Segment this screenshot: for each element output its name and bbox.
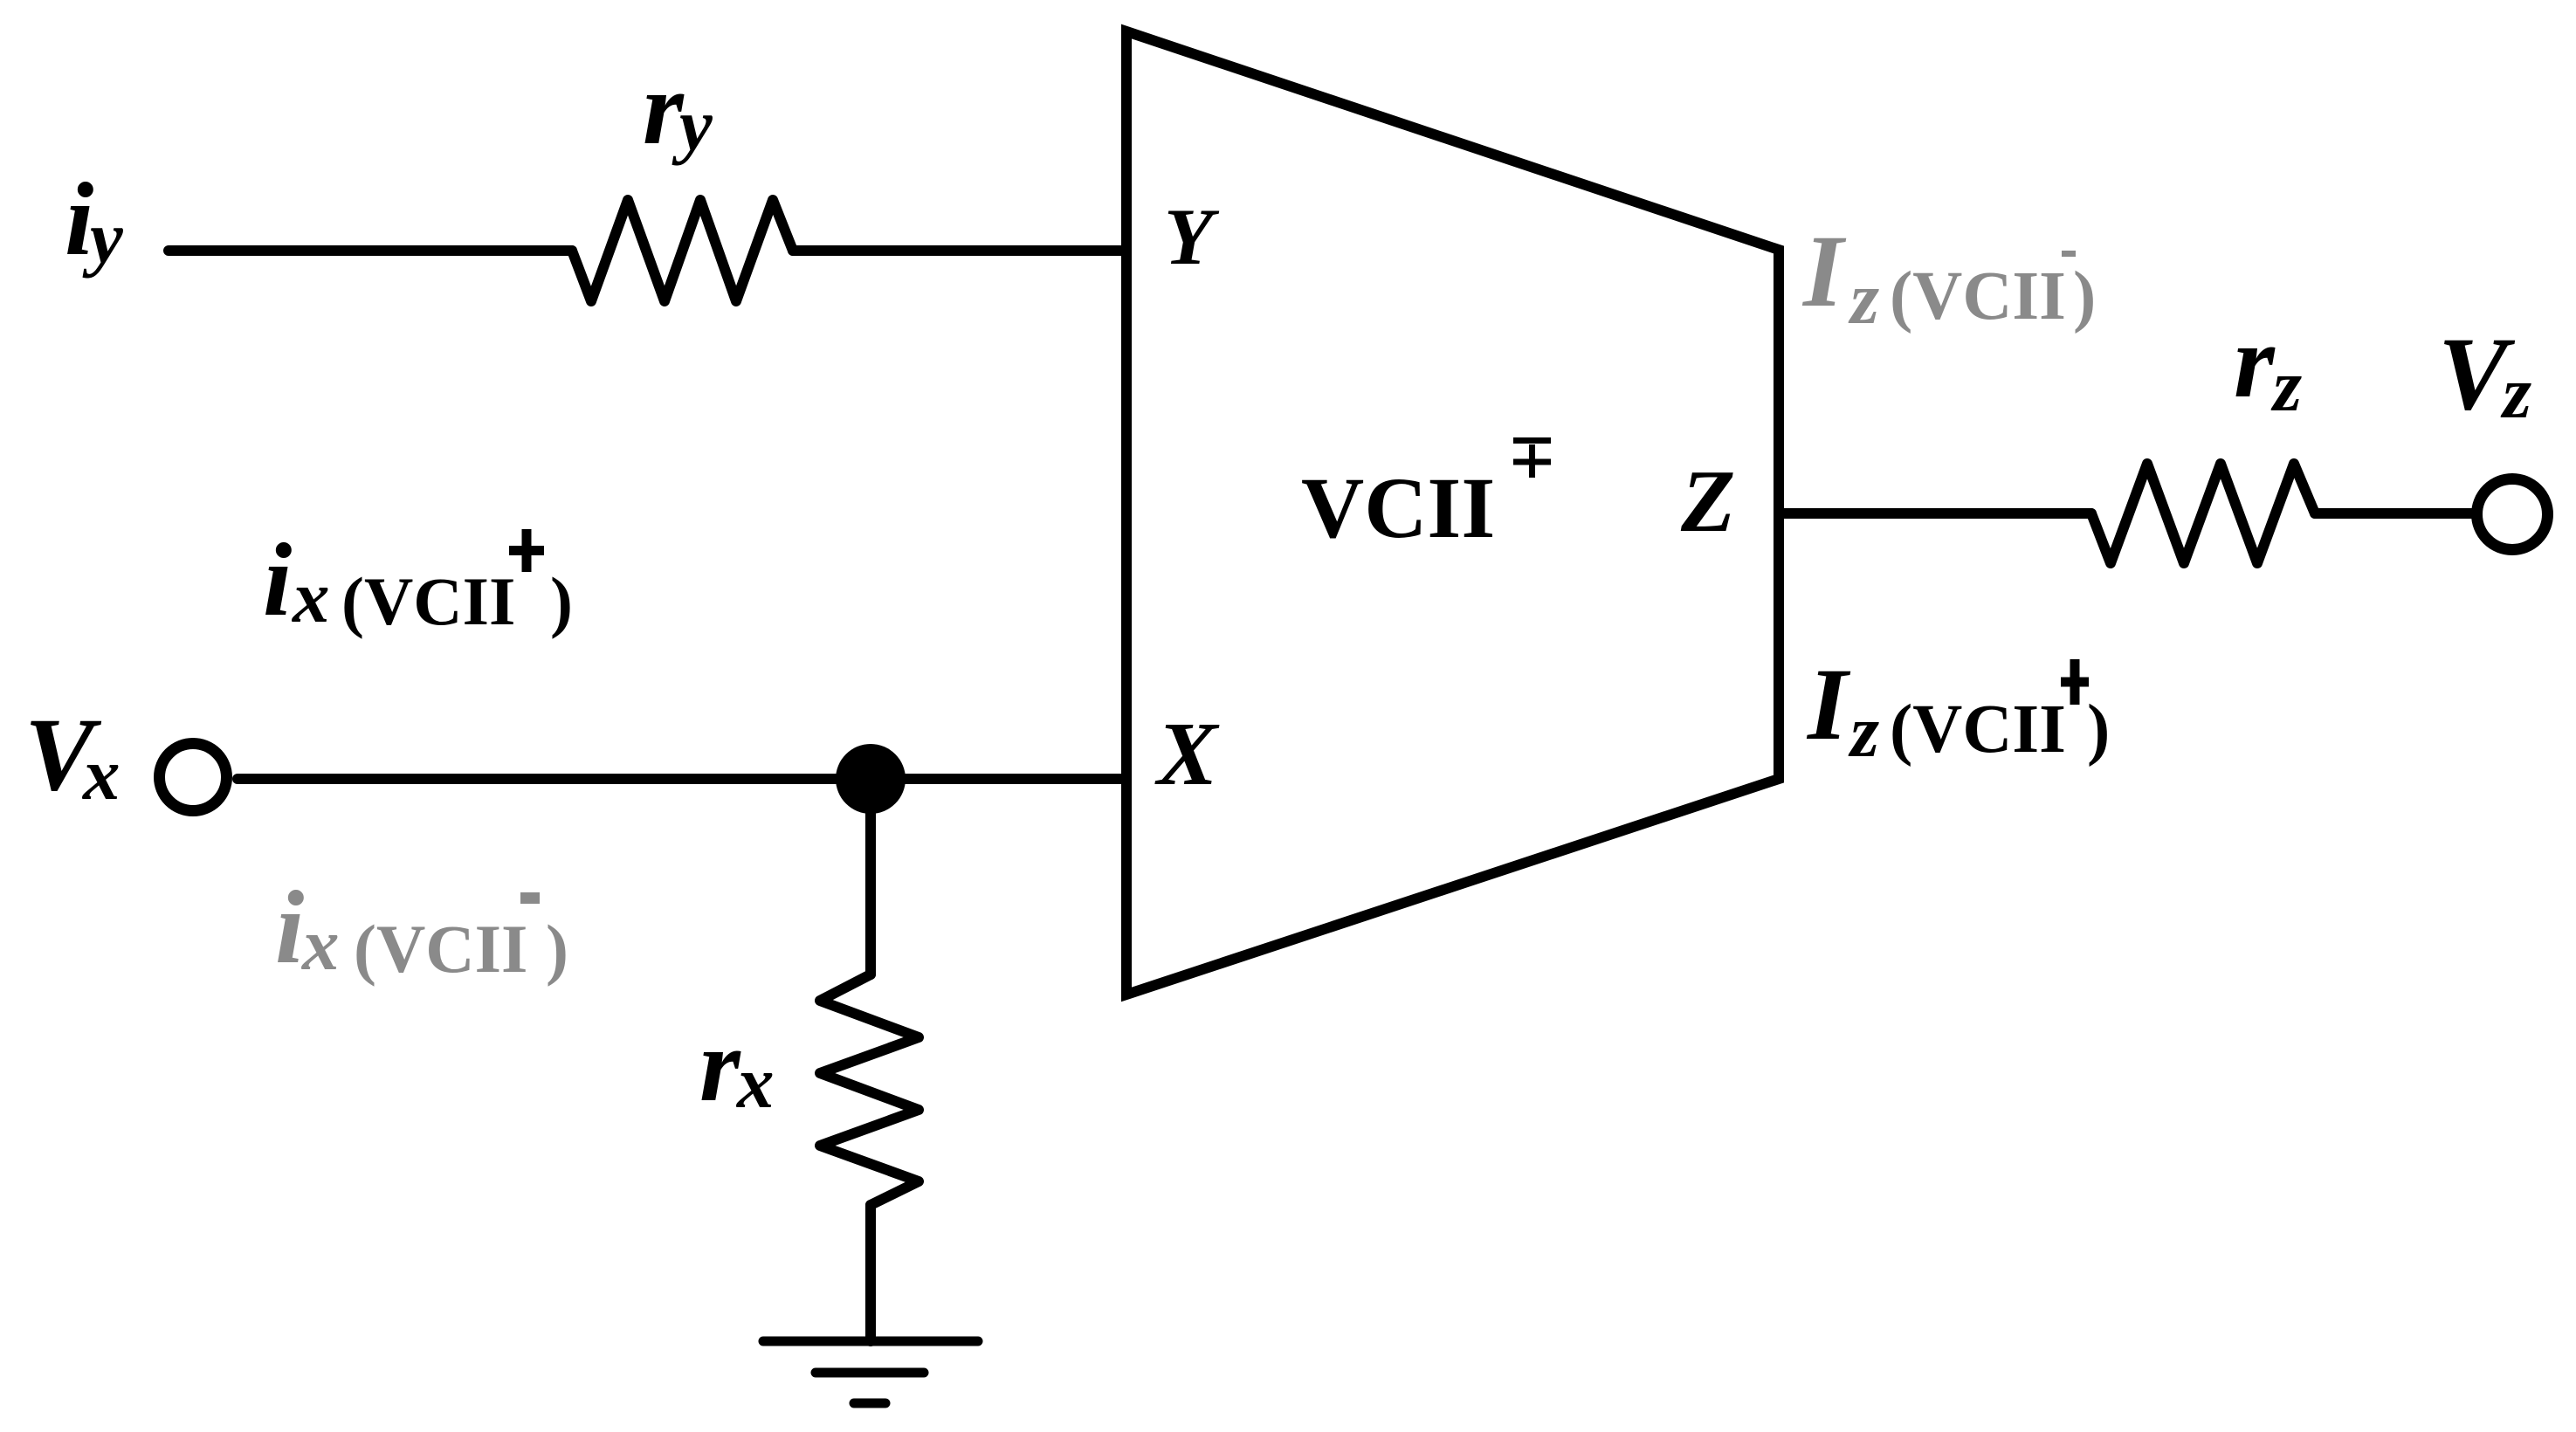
svg-text:Y: Y <box>1164 192 1220 281</box>
svg-text:r: r <box>643 50 685 166</box>
svg-text:): ) <box>2073 258 2096 334</box>
label i_y <box>65 161 123 279</box>
wire Z pin to resistor rz <box>1779 508 2091 519</box>
svg-text:x: x <box>291 556 330 638</box>
svg-text:z: z <box>1848 691 1879 773</box>
minus superscript of i_x (VCII-) gray <box>520 892 540 904</box>
svg-text:x: x <box>300 904 340 986</box>
wire iy to resistor ry <box>169 245 572 256</box>
svg-text:Z: Z <box>1680 452 1735 551</box>
svg-text:x: x <box>81 733 121 816</box>
resistor r_x <box>820 974 919 1205</box>
svg-text:r: r <box>699 1007 741 1123</box>
terminal circle V_x <box>160 744 227 811</box>
plus superscript of i_x (VCII+) <box>509 529 544 572</box>
svg-text:): ) <box>546 911 568 987</box>
minus superscript of I_z (VCII-) gray <box>2062 251 2076 257</box>
wire rz to terminal Vz <box>2315 508 2472 519</box>
wire ry to Y pin <box>793 245 1126 256</box>
label r_x <box>699 1007 775 1124</box>
label I_z (VCII-) gray <box>1801 214 2096 340</box>
svg-text:i: i <box>275 869 304 985</box>
svg-text:z: z <box>1848 258 1879 340</box>
terminal circle V_z <box>2477 479 2548 550</box>
op-amp style block U1 VCII trapezoid <box>1126 31 1779 995</box>
svg-text:r: r <box>2234 303 2276 419</box>
ground <box>763 1341 978 1403</box>
label i_x (VCII+) <box>263 521 573 639</box>
resistor r_z <box>2091 464 2315 563</box>
svg-text:i: i <box>263 521 292 637</box>
wire rx to ground <box>865 1205 876 1341</box>
junction node at X <box>836 744 906 814</box>
svg-text:(VCII: (VCII <box>354 911 527 987</box>
svg-text:I: I <box>1806 647 1851 761</box>
svg-text:): ) <box>550 563 573 639</box>
svg-text:): ) <box>2087 692 2110 768</box>
label i_x (VCII-) gray <box>275 869 568 987</box>
label I_z (VCII+) <box>1806 647 2110 773</box>
svg-text:(VCII: (VCII <box>341 563 515 639</box>
svg-text:x: x <box>735 1042 775 1124</box>
svg-text:z: z <box>2270 345 2302 427</box>
svg-text:(VCII: (VCII <box>1890 692 2066 768</box>
svg-text:I: I <box>1801 214 1847 328</box>
svg-text:(VCII: (VCII <box>1890 258 2066 334</box>
svg-text:z: z <box>2500 352 2531 434</box>
label r_z <box>2234 303 2302 427</box>
plus superscript of I_z (VCII+) <box>2061 659 2089 705</box>
wire Vx to X pin <box>238 774 1126 784</box>
label V_x <box>24 696 121 816</box>
svg-text:VCII: VCII <box>1301 459 1495 556</box>
label V_z <box>2438 315 2531 434</box>
minus-plus superscript of VCII <box>1513 441 1551 478</box>
label r_y <box>643 50 713 166</box>
resistor r_y <box>572 200 793 301</box>
wire node down to resistor rx <box>865 779 876 974</box>
svg-text:X: X <box>1154 704 1220 804</box>
